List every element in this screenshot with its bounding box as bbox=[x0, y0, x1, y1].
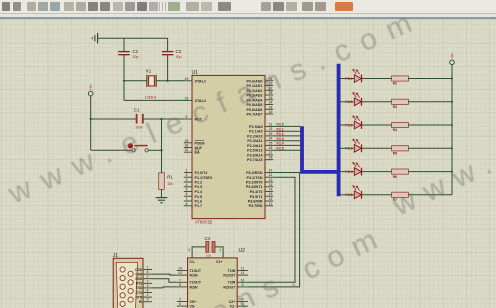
J1 pin 8 CTS bbox=[136, 289, 152, 295]
U1 pin 38 P0.1/AD1 bbox=[247, 82, 274, 89]
wire P2.3 to bus bbox=[273, 137, 300, 141]
svg-text:J1: J1 bbox=[113, 253, 119, 259]
wire J1 DSR/RXD to U2 R1IN bbox=[152, 274, 177, 275]
ground symbol (under R1) bbox=[156, 198, 168, 203]
wire P3.0/RXD to U2 R2OUT bbox=[248, 173, 300, 287]
svg-text:9: 9 bbox=[147, 298, 149, 302]
svg-text:28: 28 bbox=[269, 156, 273, 160]
wire: XTAL2 row bbox=[124, 99, 184, 101]
U1 pin 25 P2.4/A12 bbox=[247, 141, 273, 148]
svg-text:P2.4: P2.4 bbox=[277, 142, 284, 146]
crystal X1 12MHz bbox=[145, 68, 157, 99]
svg-text:TXD: TXD bbox=[136, 286, 143, 290]
svg-text:P3.2/INT0: P3.2/INT0 bbox=[246, 181, 263, 185]
wire LED to R3 bbox=[362, 101, 392, 103]
U1 pin 27 P2.6/A14 bbox=[247, 151, 273, 158]
U1 pin 23 P2.2/A10 bbox=[247, 132, 273, 139]
U1 pin 10 P3.0/RXD bbox=[246, 169, 273, 176]
svg-text:R1OUT: R1OUT bbox=[223, 274, 236, 278]
svg-text:VS-: VS- bbox=[190, 305, 197, 308]
wire bus to LED D4 bbox=[341, 147, 354, 149]
svg-text:27: 27 bbox=[269, 151, 273, 155]
J1 hole pin 3 bbox=[120, 276, 125, 281]
J1 hole pin 6 bbox=[128, 271, 133, 276]
svg-text:VS+: VS+ bbox=[190, 300, 197, 304]
svg-text:P2.7/A15: P2.7/A15 bbox=[247, 158, 262, 162]
wire: RST row right to pin bbox=[143, 118, 184, 120]
J1 pin 2 RXD bbox=[135, 275, 152, 281]
svg-text:P1.7: P1.7 bbox=[195, 204, 203, 208]
svg-text:6: 6 bbox=[179, 302, 181, 306]
J1 hole pin 9 bbox=[120, 301, 125, 306]
capacitor C1 10uF (series on RST) bbox=[134, 107, 143, 129]
svg-text:U1: U1 bbox=[192, 70, 199, 76]
wire bus to LED D6 bbox=[341, 194, 354, 196]
U1 pin 5 P1.4 bbox=[184, 188, 203, 195]
svg-text:P1.5: P1.5 bbox=[195, 195, 203, 199]
svg-text:C4: C4 bbox=[205, 236, 211, 241]
resistor R7 bbox=[392, 192, 409, 202]
svg-text:10u: 10u bbox=[206, 253, 211, 257]
svg-text:R2IN: R2IN bbox=[190, 285, 198, 289]
J1 pin 9 RI bbox=[139, 298, 152, 304]
U1 pin 8 P1.7 bbox=[184, 202, 202, 208]
wire bus to LED D2 bbox=[341, 101, 354, 103]
svg-text:12MHz: 12MHz bbox=[145, 95, 157, 99]
U1 pin 31 EA bbox=[184, 148, 200, 155]
U1 pin 13 P3.3/INT1 bbox=[246, 183, 273, 189]
wire C4 right to U2 C1+ bbox=[215, 247, 223, 258]
svg-text:DCD: DCD bbox=[135, 268, 143, 272]
power terminal +5V (right) bbox=[450, 52, 455, 65]
wire R7 to +5V rail bbox=[408, 194, 452, 196]
svg-text:R2: R2 bbox=[393, 82, 397, 86]
svg-text:C2: C2 bbox=[133, 49, 139, 54]
U1 pin 35 P0.4/AD4 bbox=[247, 96, 274, 103]
wire: crystal right to XTAL1 pin bbox=[156, 80, 184, 82]
svg-text:P3.5/T1: P3.5/T1 bbox=[250, 195, 263, 199]
svg-text:31: 31 bbox=[185, 148, 189, 152]
svg-text:T2IN: T2IN bbox=[228, 281, 236, 285]
U1 pin 15 P3.5/T1 bbox=[250, 192, 274, 199]
svg-text:P3.7/RD: P3.7/RD bbox=[249, 204, 263, 208]
svg-text:P1.2: P1.2 bbox=[195, 181, 203, 185]
svg-text:P2.3/A11: P2.3/A11 bbox=[247, 139, 262, 143]
U2 pin 5 C2- bbox=[230, 302, 248, 308]
svg-text:P2.1/A9: P2.1/A9 bbox=[249, 130, 262, 134]
svg-text:T1OUT: T1OUT bbox=[190, 269, 202, 273]
svg-text:XTAL1: XTAL1 bbox=[195, 79, 206, 83]
wire: top ground rail bbox=[98, 37, 168, 39]
svg-text:15: 15 bbox=[269, 192, 273, 196]
ground symbol (top-left, rotated) bbox=[92, 33, 97, 44]
wire P3.1/TXD to U2 T2IN bbox=[248, 177, 295, 282]
wire J1 RXD to U2 T2OUT bbox=[152, 279, 177, 283]
wire: reset button row bbox=[91, 149, 132, 151]
svg-text:8: 8 bbox=[186, 202, 188, 206]
wire P2.0 to bus bbox=[273, 123, 300, 127]
U2 pin 11 T1IN bbox=[228, 267, 248, 273]
wire: C3 top stub bbox=[167, 38, 169, 51]
svg-text:C1+: C1+ bbox=[216, 260, 223, 264]
svg-text:8: 8 bbox=[179, 283, 181, 287]
U1 pin 12 P3.2/INT0 bbox=[246, 178, 273, 185]
svg-text:7: 7 bbox=[179, 278, 181, 282]
node: junction C2/crystal bbox=[123, 80, 125, 82]
wire R3 to +5V rail bbox=[408, 101, 452, 103]
resistor R4 bbox=[392, 122, 409, 132]
svg-text:25: 25 bbox=[269, 141, 273, 145]
wire: C2 bottom to XTAL2 net (vertical) bbox=[123, 55, 125, 101]
node: junction button column bbox=[160, 149, 162, 151]
U2 pin 7 T2OUT bbox=[177, 278, 202, 284]
svg-text:12: 12 bbox=[241, 271, 245, 275]
node: rail junction bbox=[451, 147, 453, 149]
svg-text:P2.2: P2.2 bbox=[345, 123, 352, 127]
wire LED to R6 bbox=[362, 171, 392, 173]
svg-text:7: 7 bbox=[186, 197, 188, 201]
svg-text:R4: R4 bbox=[393, 128, 397, 132]
U2 pin 10 T2IN bbox=[228, 278, 248, 284]
svg-text:RI: RI bbox=[139, 300, 142, 304]
LED D2 bbox=[353, 92, 362, 105]
svg-text:CTS: CTS bbox=[136, 291, 142, 295]
U1 pin 39 P0.0/AD0 bbox=[247, 77, 274, 84]
LED D5 bbox=[353, 162, 362, 175]
svg-text:11: 11 bbox=[241, 267, 245, 271]
bus (right vertical) bbox=[337, 64, 341, 196]
svg-text:16: 16 bbox=[269, 197, 273, 201]
svg-text:3: 3 bbox=[186, 178, 188, 182]
svg-text:EA: EA bbox=[195, 151, 200, 155]
svg-text:12: 12 bbox=[269, 178, 273, 182]
svg-text:R1IN: R1IN bbox=[190, 274, 198, 278]
wire bus to LED D3 bbox=[341, 124, 354, 126]
svg-text:C1: C1 bbox=[134, 107, 140, 112]
svg-text:P3.3/INT1: P3.3/INT1 bbox=[246, 185, 263, 189]
J1 hole pin 12 bbox=[128, 297, 133, 302]
svg-text:P2.2: P2.2 bbox=[277, 132, 284, 136]
svg-text:P1.0/T2: P1.0/T2 bbox=[195, 171, 208, 175]
U1 pin 34 P0.5/AD5 bbox=[247, 101, 274, 108]
U1 pin 29 PSEN bbox=[184, 139, 205, 146]
svg-text:6: 6 bbox=[186, 192, 188, 196]
wire P2.2 to bus bbox=[273, 132, 300, 136]
node: rail junction bbox=[451, 78, 453, 80]
svg-text:RXD: RXD bbox=[135, 277, 142, 281]
U1 pin 3 P1.2 bbox=[184, 178, 202, 185]
svg-text:21: 21 bbox=[269, 122, 273, 126]
U1 pin 30 ALE bbox=[184, 144, 203, 151]
svg-text:P1.3: P1.3 bbox=[195, 185, 203, 189]
svg-text:T1IN: T1IN bbox=[228, 269, 236, 273]
node: junction +5V/RST bbox=[90, 118, 92, 120]
svg-text:14: 14 bbox=[269, 188, 273, 192]
resistor R5 bbox=[392, 146, 409, 156]
wire: C2 top stub bbox=[123, 38, 125, 51]
svg-text:4: 4 bbox=[147, 293, 149, 297]
svg-text:13: 13 bbox=[269, 183, 273, 187]
wire: +5V vertical drop bbox=[90, 96, 92, 150]
svg-text:+5V: +5V bbox=[451, 52, 455, 59]
J1 pin 3 TXD bbox=[136, 284, 152, 290]
wire: button/R1 vertical bbox=[161, 119, 163, 173]
wire: crystal left lead bbox=[124, 80, 147, 82]
J1 hole pin 5 bbox=[120, 284, 125, 289]
svg-text:11: 11 bbox=[269, 173, 273, 177]
svg-text:6: 6 bbox=[147, 270, 149, 274]
U2 pin 2 VS+ bbox=[177, 298, 196, 304]
LED D3 bbox=[353, 116, 362, 129]
svg-text:AT89C52: AT89C52 bbox=[195, 220, 213, 225]
svg-text:30: 30 bbox=[185, 144, 189, 148]
U1 pin 9 RST bbox=[184, 115, 203, 122]
J1 pin 6 DSR bbox=[135, 270, 152, 276]
wire LED to R4 bbox=[362, 124, 392, 126]
wire C4 left to U2 C1- bbox=[192, 247, 206, 258]
svg-text:29: 29 bbox=[185, 139, 189, 143]
wire P2.1 to bus bbox=[273, 127, 300, 131]
U1 pin 11 P3.1/TXD bbox=[247, 173, 274, 180]
svg-text:22: 22 bbox=[269, 127, 273, 131]
J1 hole pin 8 bbox=[128, 280, 133, 285]
wire R4 to +5V rail bbox=[408, 124, 452, 126]
svg-text:30p: 30p bbox=[133, 55, 139, 59]
J1 hole pin 1 bbox=[120, 267, 125, 272]
wire LED to R7 bbox=[362, 194, 392, 196]
U1 pin 2 P1.1/T2EX bbox=[184, 173, 213, 180]
svg-text:3: 3 bbox=[188, 248, 190, 252]
U1 pin 24 P2.3/A11 bbox=[247, 137, 273, 144]
capacitor C2 bbox=[118, 49, 138, 59]
svg-text:P3.6/WR: P3.6/WR bbox=[248, 200, 263, 204]
wire R5 to +5V rail bbox=[408, 147, 452, 149]
svg-text:P2.0: P2.0 bbox=[345, 77, 352, 81]
svg-text:7: 7 bbox=[147, 279, 149, 283]
svg-text:2: 2 bbox=[147, 275, 149, 279]
J1 pin 4 DTR bbox=[136, 293, 152, 299]
svg-text:P2.6/A14: P2.6/A14 bbox=[247, 153, 263, 157]
svg-text:P2.4: P2.4 bbox=[345, 170, 352, 174]
resistor R1 10k (vertical) bbox=[159, 173, 174, 190]
svg-text:P1.4: P1.4 bbox=[195, 190, 204, 194]
svg-text:10: 10 bbox=[269, 169, 273, 173]
svg-text:R1: R1 bbox=[167, 175, 173, 180]
svg-text:C3: C3 bbox=[176, 49, 182, 54]
wire J1 TXD to U2 R2IN bbox=[152, 287, 177, 288]
U1 pin 32 P0.7/AD7 bbox=[247, 110, 274, 117]
+5V rail vertical bbox=[451, 65, 453, 195]
node: rail junction bbox=[451, 171, 453, 173]
svg-text:R5: R5 bbox=[393, 152, 397, 156]
resistor R3 bbox=[392, 99, 409, 109]
node: junction RST/R1 bbox=[160, 118, 162, 120]
svg-text:U2: U2 bbox=[239, 248, 246, 254]
wire R2 to +5V rail bbox=[408, 78, 452, 80]
LED D4 bbox=[353, 139, 362, 152]
U1 pin 19 XTAL1 bbox=[184, 77, 206, 84]
svg-text:P0.7/AD7: P0.7/AD7 bbox=[247, 113, 263, 117]
svg-text:P1.1/T2EX: P1.1/T2EX bbox=[195, 176, 213, 180]
svg-text:ALE: ALE bbox=[195, 146, 203, 150]
J1 pin 7 RTS bbox=[136, 279, 152, 285]
svg-text:RTS: RTS bbox=[136, 282, 142, 286]
capacitor C3 bbox=[162, 49, 182, 59]
svg-text:P2.1: P2.1 bbox=[345, 100, 352, 104]
U1 pin 6 P1.5 bbox=[184, 192, 202, 199]
wire: RST row left bbox=[91, 118, 136, 120]
U1 pin 22 P2.1/A9 bbox=[249, 127, 273, 134]
U2 pin 12 R1OUT bbox=[223, 271, 248, 277]
svg-text:P3.0/RXD: P3.0/RXD bbox=[246, 171, 263, 175]
U1 pin 16 P3.6/WR bbox=[248, 197, 273, 204]
U1 pin 7 P1.6 bbox=[184, 197, 202, 204]
svg-text:5: 5 bbox=[186, 188, 188, 192]
svg-text:30p: 30p bbox=[176, 55, 182, 59]
J1 pin 1 DCD bbox=[135, 266, 152, 272]
resistor R6 bbox=[392, 169, 409, 179]
bus (left vertical + bottom) bbox=[302, 126, 339, 172]
svg-text:P2.5: P2.5 bbox=[277, 146, 284, 150]
wire: C3 bottom drop bbox=[167, 55, 169, 81]
U1 pin 36 P0.3/AD3 bbox=[247, 91, 274, 98]
resistor R2 bbox=[392, 76, 409, 86]
svg-text:P2.3: P2.3 bbox=[277, 137, 284, 141]
U1 pin 28 P2.7/A15 bbox=[247, 156, 273, 163]
svg-text:14: 14 bbox=[178, 267, 182, 271]
svg-text:X1: X1 bbox=[146, 68, 152, 73]
wire P2.5 to bus bbox=[273, 146, 300, 150]
U2 pin 8 R2IN bbox=[177, 283, 198, 289]
J1 hole pin 7 bbox=[120, 293, 125, 298]
svg-text:23: 23 bbox=[269, 132, 273, 136]
svg-text:+5V: +5V bbox=[89, 84, 93, 91]
svg-text:24: 24 bbox=[269, 137, 273, 141]
U1 pin 18 XTAL2 bbox=[184, 96, 206, 103]
wire R6 to +5V rail bbox=[408, 171, 452, 173]
svg-text:P2.5/A13: P2.5/A13 bbox=[247, 149, 262, 153]
svg-text:1: 1 bbox=[186, 169, 188, 173]
svg-text:P2.1: P2.1 bbox=[277, 127, 284, 131]
svg-text:1: 1 bbox=[147, 266, 149, 270]
svg-text:C1-: C1- bbox=[190, 260, 196, 264]
U2 pin 14 T1OUT bbox=[177, 267, 202, 273]
capacitor C4 bbox=[205, 236, 216, 258]
svg-text:P1.6: P1.6 bbox=[195, 200, 203, 204]
svg-text:3: 3 bbox=[147, 284, 149, 288]
svg-text:P2.0: P2.0 bbox=[277, 123, 284, 127]
U2 pin 9 R2OUT bbox=[223, 283, 248, 289]
svg-text:2: 2 bbox=[179, 298, 181, 302]
svg-text:26: 26 bbox=[269, 146, 273, 150]
svg-text:T2OUT: T2OUT bbox=[190, 281, 202, 285]
svg-text:DTR: DTR bbox=[136, 295, 143, 299]
pushbutton (reset) bbox=[128, 144, 148, 152]
svg-text:R3: R3 bbox=[393, 105, 397, 109]
svg-text:R6: R6 bbox=[393, 175, 397, 179]
svg-text:4: 4 bbox=[186, 183, 188, 187]
svg-text:2: 2 bbox=[186, 173, 188, 177]
J1 hole pin 10 bbox=[128, 288, 133, 293]
U1 pin 17 P3.7/RD bbox=[249, 202, 274, 208]
LED D6 bbox=[353, 185, 362, 198]
wire LED to R2 bbox=[362, 78, 392, 80]
svg-text:8: 8 bbox=[147, 289, 149, 293]
U2 pin 13 R1IN bbox=[177, 271, 198, 277]
svg-text:1: 1 bbox=[219, 248, 221, 252]
U1 pin 33 P0.6/AD6 bbox=[247, 105, 274, 112]
wire LED to R5 bbox=[362, 147, 392, 149]
svg-text:10k: 10k bbox=[167, 182, 173, 186]
svg-text:19: 19 bbox=[185, 77, 189, 81]
svg-text:13: 13 bbox=[178, 271, 182, 275]
U2 pin 4 C2+ bbox=[229, 298, 248, 304]
svg-text:PSEN: PSEN bbox=[195, 141, 205, 145]
svg-text:DSR: DSR bbox=[135, 272, 142, 276]
svg-text:P3.4/T0: P3.4/T0 bbox=[250, 190, 263, 194]
U1 pin 1 P1.0/T2 bbox=[184, 169, 208, 176]
node: rail junction bbox=[451, 101, 453, 103]
MCU U1 AT89C52 body bbox=[192, 70, 266, 225]
IC U2 MAX232 body bbox=[188, 248, 246, 308]
U1 pin 37 P0.2/AD2 bbox=[247, 86, 274, 93]
node: junction C3/XTAL1 net bbox=[167, 80, 169, 82]
node: rail junction bbox=[451, 124, 453, 126]
svg-text:17: 17 bbox=[269, 202, 273, 206]
wire bus to LED D1 bbox=[341, 78, 354, 80]
svg-text:P2.2/A10: P2.2/A10 bbox=[247, 134, 262, 138]
svg-text:32: 32 bbox=[269, 110, 273, 114]
U1 pin 21 P2.0/A8 bbox=[249, 122, 273, 128]
wire P2.4 to bus bbox=[273, 142, 300, 146]
wire bus to LED D5 bbox=[341, 171, 354, 173]
svg-text:P2.3: P2.3 bbox=[345, 147, 352, 151]
wire: R1 to ground bbox=[161, 189, 163, 197]
svg-text:P2.0/A8: P2.0/A8 bbox=[249, 125, 262, 129]
svg-text:P2.4/A12: P2.4/A12 bbox=[247, 144, 262, 148]
U1 pin 14 P3.4/T0 bbox=[250, 188, 274, 195]
U1 pin 4 P1.3 bbox=[184, 183, 202, 189]
U1 pin 26 P2.5/A13 bbox=[247, 146, 273, 153]
svg-text:33: 33 bbox=[269, 105, 273, 109]
svg-text:34: 34 bbox=[269, 101, 273, 105]
U2 pin 6 VS- bbox=[177, 302, 196, 308]
svg-text:P3.1/TXD: P3.1/TXD bbox=[247, 176, 263, 180]
svg-text:P2.5: P2.5 bbox=[345, 193, 352, 197]
connector J1 body bbox=[113, 253, 143, 308]
power terminal +5V (left) bbox=[88, 84, 93, 96]
LED D1 bbox=[353, 69, 362, 82]
